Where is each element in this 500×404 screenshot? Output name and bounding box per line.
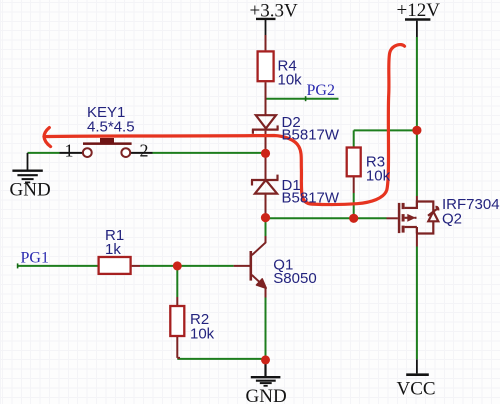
svg-text:1k: 1k xyxy=(105,241,121,258)
svg-text:PG1: PG1 xyxy=(21,249,49,266)
svg-text:4.5*4.5: 4.5*4.5 xyxy=(87,118,135,135)
svg-text:B5817W: B5817W xyxy=(282,189,340,206)
svg-text:10k: 10k xyxy=(366,168,391,185)
svg-text:10k: 10k xyxy=(190,325,215,342)
svg-text:+3.3V: +3.3V xyxy=(250,1,298,22)
svg-text:B5817W: B5817W xyxy=(282,127,340,144)
svg-text:VCC: VCC xyxy=(397,378,436,399)
svg-text:GND: GND xyxy=(10,180,51,201)
svg-text:+12V: +12V xyxy=(397,0,441,21)
svg-text:S8050: S8050 xyxy=(273,270,316,287)
svg-text:PG2: PG2 xyxy=(307,82,335,99)
svg-text:Q2: Q2 xyxy=(442,210,462,227)
svg-text:10k: 10k xyxy=(278,72,303,89)
svg-text:1: 1 xyxy=(65,140,74,160)
svg-text:2: 2 xyxy=(140,140,149,160)
svg-text:GND: GND xyxy=(246,386,287,404)
